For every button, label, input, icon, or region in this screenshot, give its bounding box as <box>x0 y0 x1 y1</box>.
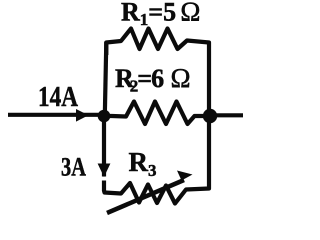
svg-text:14A: 14A <box>38 81 78 113</box>
svg-text:R1=5Ω: R1=5Ω <box>121 0 200 29</box>
svg-text:R3: R3 <box>129 147 157 180</box>
svg-text:R2=6Ω: R2=6Ω <box>115 63 191 96</box>
svg-text:3A: 3A <box>61 153 86 182</box>
